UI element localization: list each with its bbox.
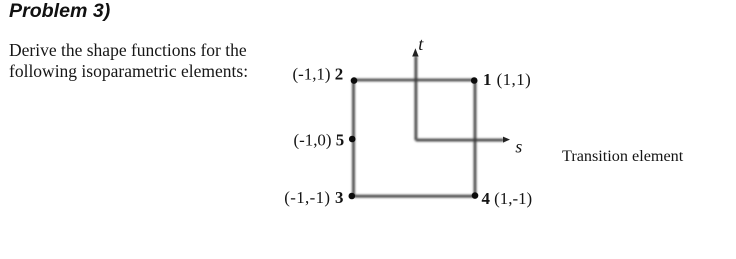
svg-text:(-1,1) 2: (-1,1) 2	[293, 64, 344, 83]
svg-text:t: t	[418, 34, 424, 54]
svg-text:s: s	[515, 137, 522, 157]
wire: element top edge	[354, 79, 476, 82]
node 2 dot (-1,1)	[351, 77, 358, 84]
svg-text:(-1,-1) 3: (-1,-1) 3	[284, 188, 343, 207]
t-axis	[412, 48, 418, 140]
node 3 dot (-1,-1)	[349, 193, 356, 200]
s-axis	[416, 137, 510, 143]
wire: element right edge	[474, 80, 477, 196]
node 1 dot (1,1)	[471, 77, 478, 84]
wire: element left edge	[352, 80, 355, 196]
svg-text:1 (1,1): 1 (1,1)	[483, 70, 531, 89]
svg-text:(-1,0) 5: (-1,0) 5	[294, 130, 345, 149]
node 4 dot (1,-1)	[472, 192, 479, 199]
svg-text:Transition element: Transition element	[562, 147, 684, 165]
node 5 dot (-1,0)	[349, 136, 356, 143]
svg-text:4 (1,-1): 4 (1,-1)	[482, 189, 533, 208]
wire: element bottom edge	[354, 195, 476, 198]
heading "Problem 3)"	[9, 0, 110, 23]
paragraph text	[9, 40, 248, 82]
